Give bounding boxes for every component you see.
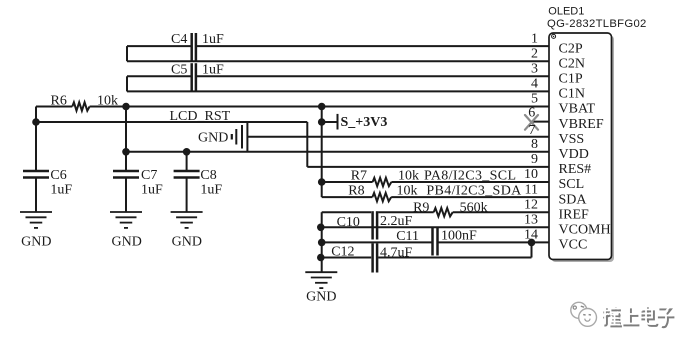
svg-text:C1P: C1P xyxy=(559,72,583,87)
svg-text:C7: C7 xyxy=(141,168,157,183)
svg-text:OLED1: OLED1 xyxy=(548,5,584,17)
svg-text:GND: GND xyxy=(198,131,228,146)
svg-text:RES#: RES# xyxy=(559,162,592,177)
svg-text:11: 11 xyxy=(525,182,538,197)
svg-text:1uF: 1uF xyxy=(141,183,163,198)
svg-text:C5: C5 xyxy=(171,62,187,77)
svg-text:VBAT: VBAT xyxy=(559,102,596,117)
svg-text:7: 7 xyxy=(529,123,536,138)
svg-text:VDD: VDD xyxy=(559,147,589,162)
svg-text:C2P: C2P xyxy=(559,41,583,56)
svg-text:S_+3V3: S_+3V3 xyxy=(341,115,388,130)
svg-text:10k: 10k xyxy=(398,168,419,183)
svg-text:GND: GND xyxy=(306,290,336,305)
svg-text:4: 4 xyxy=(531,77,538,92)
svg-text:R7: R7 xyxy=(351,168,367,183)
svg-text:13: 13 xyxy=(524,213,538,228)
svg-text:6: 6 xyxy=(528,106,535,121)
svg-text:GND: GND xyxy=(172,235,202,250)
svg-text:QG-2832TLBFG02: QG-2832TLBFG02 xyxy=(547,18,647,30)
svg-text:C12: C12 xyxy=(331,245,354,260)
svg-text:C2N: C2N xyxy=(559,56,585,71)
svg-text:560k: 560k xyxy=(460,201,488,216)
svg-text:SCL: SCL xyxy=(559,177,585,192)
svg-text:C1N: C1N xyxy=(559,87,585,102)
svg-text:VBREF: VBREF xyxy=(559,117,604,132)
svg-text:C4: C4 xyxy=(171,32,187,47)
svg-text:4.7uF: 4.7uF xyxy=(380,246,413,261)
svg-text:12: 12 xyxy=(524,197,538,212)
svg-text:5: 5 xyxy=(531,92,538,107)
svg-text:C8: C8 xyxy=(200,168,216,183)
svg-text:10k: 10k xyxy=(97,94,118,109)
svg-text:VCC: VCC xyxy=(559,238,588,253)
svg-text:GND: GND xyxy=(21,235,51,250)
svg-text:1uF: 1uF xyxy=(202,62,224,77)
svg-text:R8: R8 xyxy=(348,183,364,198)
svg-text:14: 14 xyxy=(524,228,538,243)
svg-text:PB4/I2C3_SDA: PB4/I2C3_SDA xyxy=(426,183,522,198)
svg-text:2: 2 xyxy=(531,46,538,61)
svg-text:8: 8 xyxy=(531,137,538,152)
svg-text:1uF: 1uF xyxy=(50,183,72,198)
svg-text:C11: C11 xyxy=(396,229,419,244)
svg-text:PA8/I2C3_SCL: PA8/I2C3_SCL xyxy=(424,168,516,183)
svg-text:SDA: SDA xyxy=(559,192,588,207)
svg-text:100nF: 100nF xyxy=(441,229,477,244)
svg-text:10: 10 xyxy=(524,167,538,182)
svg-text:3: 3 xyxy=(531,62,538,77)
svg-text:C6: C6 xyxy=(50,168,66,183)
svg-text:GND: GND xyxy=(112,235,142,250)
svg-text:10k: 10k xyxy=(397,183,418,198)
svg-text:R9: R9 xyxy=(413,201,429,216)
svg-text:9: 9 xyxy=(531,152,538,167)
svg-text:R6: R6 xyxy=(51,94,67,109)
svg-text:1uF: 1uF xyxy=(202,32,224,47)
svg-text:VCOMH: VCOMH xyxy=(559,223,611,238)
svg-text:C10: C10 xyxy=(337,215,360,230)
svg-text:1: 1 xyxy=(531,31,538,46)
svg-text:LCD_RST: LCD_RST xyxy=(170,109,231,124)
svg-text:VSS: VSS xyxy=(559,132,585,147)
svg-text:IREF: IREF xyxy=(559,207,590,222)
svg-text:2.2uF: 2.2uF xyxy=(380,214,413,229)
svg-text:1uF: 1uF xyxy=(200,183,222,198)
